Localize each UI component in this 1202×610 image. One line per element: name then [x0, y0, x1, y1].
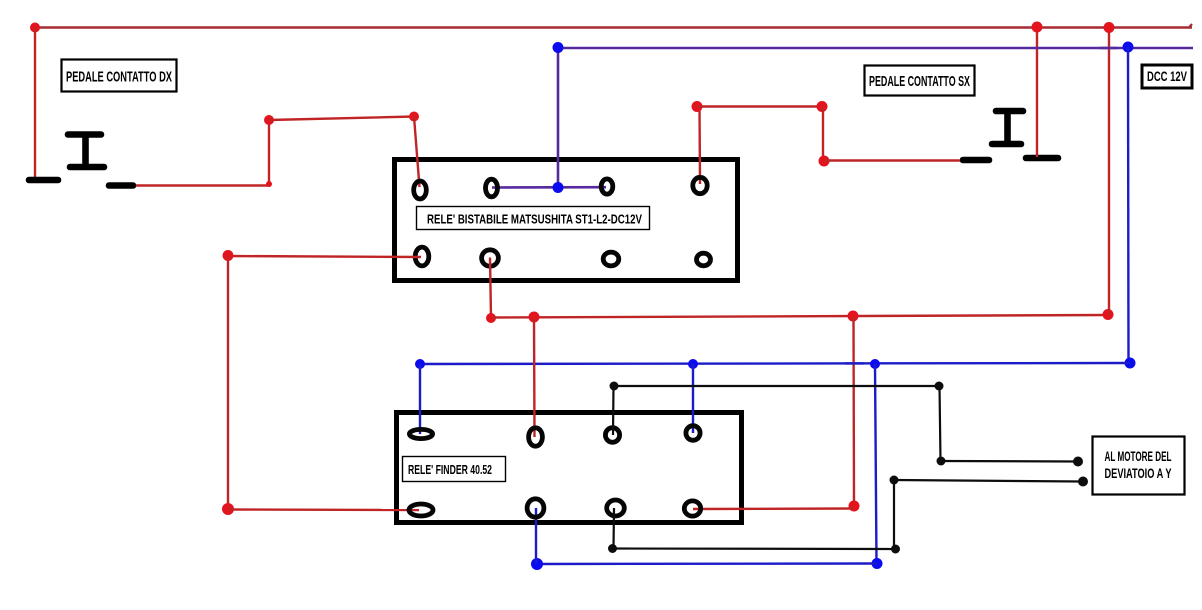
wire: blue drop to lower run	[875, 364, 877, 563]
wire: across to SX pedal drop	[697, 105, 822, 107]
wire: +12V red top rail	[33, 26, 1192, 29]
node: red corner above U2 pin8 run	[849, 501, 860, 512]
relay U1 pin 4	[693, 177, 707, 193]
node: black corner lower right	[891, 545, 900, 554]
node: red corner bottom left	[222, 503, 234, 515]
node: red corner mid rail far right	[1103, 309, 1114, 320]
label: PEDALE CONTATTO DX	[62, 60, 177, 92]
wire: black to motor box lower	[894, 480, 1081, 482]
wire: red drop from U1 pin6	[490, 258, 491, 319]
relay U1 RELE' BISTABILE body	[395, 160, 738, 281]
node: red junction mid rail right	[848, 311, 859, 322]
node: blue corner under U2 pin6	[531, 558, 543, 570]
node: red junction on top rail above SX	[1032, 22, 1043, 33]
node: black corner at motor upper lead	[937, 457, 946, 466]
node: red junction on top rail right	[1104, 22, 1115, 33]
node: red junction above U1 pin4	[692, 101, 703, 112]
wire: red drop from top rail to pedal SX right contact	[1036, 28, 1038, 158]
wire: purple drop to U1 pin2-pin3 link	[557, 48, 560, 187]
label: DCC 12V	[1142, 65, 1192, 88]
node: red corner under U1 pin6	[486, 313, 496, 323]
wire: across to U1 pin1 drop	[269, 117, 414, 121]
node: blue junction DCC tap	[1123, 42, 1134, 53]
relay U2 pin 8	[684, 501, 700, 516]
wire: red from U2 pin8 to riser	[693, 507, 854, 510]
svg-text:RELE' FINDER 40.52: RELE' FINDER 40.52	[408, 462, 492, 477]
relay U2 pin 1	[409, 429, 432, 438]
node: black corner at motor lower lead	[890, 476, 899, 485]
node: blue junction on purple rail	[553, 42, 564, 53]
wire: purple rail overlay at red riser crossing	[1100, 47, 1118, 50]
wire: black riser to motor lower lead	[893, 480, 895, 549]
relay U2 pin 7	[607, 500, 625, 516]
wire: red riser to top rail	[1108, 28, 1110, 316]
label: PEDALE CONTATTO SX	[865, 66, 975, 96]
wire: red drop to pedal DX left contact	[34, 28, 36, 182]
wire: red drop to U2 pin8 run	[852, 316, 855, 506]
wire: drop to SX left contact level	[822, 107, 824, 162]
relay U2 pin 5	[409, 504, 433, 516]
relay U1 pin 6	[482, 250, 499, 266]
switch: pedal SX pushbutton	[963, 111, 1058, 160]
wire: purple DCC rail	[558, 47, 1193, 50]
svg-text:PEDALE CONTATTO SX: PEDALE CONTATTO SX	[869, 73, 970, 90]
relay U2 RELE' FINDER body	[397, 413, 742, 523]
label: RELE' FINDER 40.52	[403, 457, 506, 482]
wire: red mid rail	[491, 315, 1108, 318]
svg-text:DEVIATOIO A Y: DEVIATOIO A Y	[1105, 466, 1172, 481]
wire: pedal DX to relay U1 pin 1	[136, 120, 269, 186]
wire: to SX pedal left contact	[824, 159, 960, 161]
relay U2 pin 3	[605, 428, 619, 443]
relay U1 pin 3	[601, 179, 613, 194]
wire: red from left junction into U1 pin5	[228, 256, 421, 257]
node: red junction top-left	[30, 23, 40, 33]
wire: blue drop into U2 pin4	[692, 364, 694, 433]
wire: U1 pin4 riser	[698, 107, 701, 184]
svg-text:PEDALE CONTATTO DX: PEDALE CONTATTO DX	[66, 69, 172, 86]
relay U1 pin 5	[415, 247, 429, 266]
wire: blue DCC drop right side	[1127, 47, 1130, 363]
wire: red into U2 pin5	[228, 508, 419, 511]
svg-text:DCC 12V: DCC 12V	[1147, 68, 1187, 84]
node: black corner right of pin3 run	[935, 382, 944, 391]
node: red junction above U1 pin1	[409, 112, 419, 122]
node: red corner at pedal DX riser	[264, 115, 274, 125]
node: red corner at SX left contact level	[819, 156, 830, 167]
relay U1 pin 2	[486, 179, 498, 197]
wire: blue riser from U2 pin6	[535, 508, 537, 564]
node: black terminal motor upper	[1073, 457, 1083, 467]
node: red junction left mid	[223, 250, 234, 261]
svg-text:RELE' BISTABILE MATSUSHITA ST1: RELE' BISTABILE MATSUSHITA ST1-L2-DC12V	[427, 212, 642, 227]
node: blue junction above U2 pin4	[688, 359, 698, 369]
label: RELE' BISTABILE MATSUSHITA ST1-L2-DC12V	[417, 207, 650, 230]
node: black junction above U2 pin3	[610, 382, 619, 391]
wire: black drop from U2 pin7	[612, 508, 615, 549]
node: blue junction above U2 pin1	[415, 359, 425, 369]
wire: red left drop to U2 pin5 level	[227, 256, 229, 510]
relay U2 pin 4	[686, 426, 700, 441]
wire: black to motor box upper	[941, 460, 1078, 463]
node: blue junction mid rail	[870, 359, 880, 369]
wire: blue rail to relay U2	[420, 363, 1130, 364]
node: black terminal motor lower	[1078, 477, 1088, 487]
wire: purple link U1 pin2 to pin3	[492, 186, 606, 189]
wire: black run to motor drop	[614, 385, 939, 387]
label: AL MOTORE DEL DEVIATOIO A Y	[1093, 437, 1185, 495]
switch: pedal DX pushbutton	[29, 135, 133, 186]
node: blue corner lower right	[872, 558, 883, 569]
wire: black drop to motor level	[940, 386, 941, 461]
svg-text:AL MOTORE DEL: AL MOTORE DEL	[1105, 449, 1172, 464]
wire: red drop into U2 pin2	[533, 317, 536, 437]
node: blue junction on pin2-pin3 link	[553, 182, 564, 193]
node: blue corner bottom of DCC drop	[1125, 358, 1136, 369]
wire: black lower run	[613, 547, 895, 550]
node: black corner under U2 pin7	[608, 544, 617, 553]
relay U1 pin 1	[414, 181, 427, 199]
relay U2 pin 2	[529, 428, 543, 446]
wire: drop into U1 pin1	[414, 117, 420, 188]
wire: black riser from U2 pin3	[612, 386, 615, 435]
wire: blue lower run to U2 pin6	[537, 562, 877, 565]
wire: blue rail overlay at red riser crossing	[845, 362, 864, 364]
wire: blue drop into U2 pin1	[419, 364, 421, 434]
node: red junction above U2 pin2	[529, 312, 540, 323]
relay U1 pin 7	[603, 252, 619, 266]
node: red corner right of U1 pin4 run	[817, 101, 828, 112]
relay U1 pin 8	[697, 253, 711, 266]
relay U2 pin 6	[527, 499, 544, 517]
